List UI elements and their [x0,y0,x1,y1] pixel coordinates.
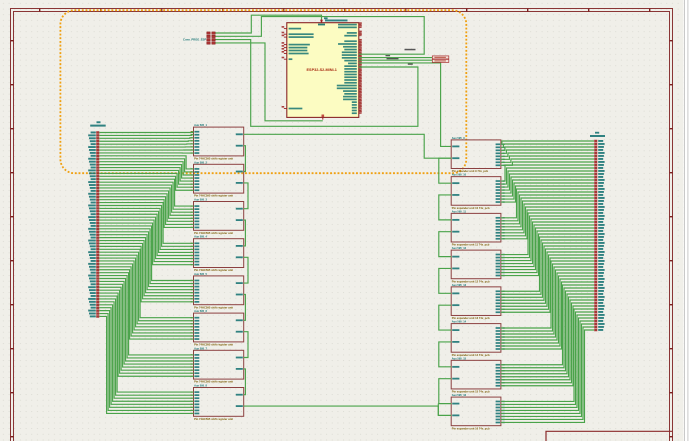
U10 pin names [452,143,504,166]
wire U10 output 5 to J3 pin 5 [501,153,594,156]
U2 pin names [191,131,243,154]
shift register U16 body [451,360,501,389]
wire U12 output 6 to J3 pin 22 [501,204,594,233]
wire U10 serial out to U11 serial in [439,158,451,183]
wire J2 pin 49 to U8 input 1 [99,273,193,355]
wire U13 output 3 to J3 pin 27 [501,219,594,261]
wire U16 output 4 to J3 pin 52 [501,294,594,374]
wire U14 output 2 to J3 pin 34 [501,240,594,294]
connector J1 programming header 2x4 [207,32,215,44]
wire U16 output 1 to J3 pin 49 [501,285,594,365]
wire U17 output 6 to J3 pin 62 [501,324,594,416]
wire J1 pin1 to U1 3V3 top pin [216,15,322,33]
connector J3 pin rows [594,140,604,332]
U4 pin names [191,205,243,228]
U13 pin names [452,254,504,277]
wire J1 pin3 to U1 EN net [216,40,418,127]
wire J1 pin2 to U1 TXD net [216,17,425,55]
U8 pin names [191,354,243,377]
U1 left side pins EN IO0 IO45 IO46 3V3 RXD [282,26,314,109]
wire J2 pin 10 to U3 input 2 [99,159,193,172]
wire U15 output 1 to J3 pin 41 [501,261,594,328]
wire U17 output 1 to J3 pin 57 [501,309,594,401]
svg-text:Aux 595_16: Aux 595_16 [452,393,467,397]
shift register U3 body [194,164,244,193]
shift register U5 body [194,239,244,268]
wire U12 output 3 to J3 pin 19 [501,195,594,224]
wire U12 output 4 to J3 pin 20 [501,198,594,227]
net name text XTAL_N [405,49,416,51]
wire U13 output 5 to J3 pin 29 [501,225,594,267]
wire U5 serial out to U6 serial in [244,257,248,283]
svg-text:Pin 74HC595 shift register uni: Pin 74HC595 shift register unit [194,157,233,161]
wire U11 output 2 to J3 pin 10 [501,168,594,184]
wire J2 pin 13 to U3 input 5 [99,168,193,182]
wire J2 pin 60 to U9 input 4 [99,305,193,401]
wire J2 pin 12 to U3 input 4 [99,165,193,178]
wire U12 output 2 to J3 pin 18 [501,192,594,221]
U11 pin names [452,180,504,203]
wire J2 pin 4 to U2 input 4 [99,140,193,142]
wire U6 serial out to U7 serial in [244,295,246,321]
wire U15 output 8 to J3 pin 48 [501,282,594,349]
wire J2 pin 22 to U4 input 6 [99,194,193,222]
U1 reference designator text [324,17,328,19]
wire U13 output 2 to J3 pin 26 [501,216,594,258]
wire U17 output 4 to J3 pin 60 [501,318,594,410]
svg-text:Pin expander unit 11 74x_pcb: Pin expander unit 11 74x_pcb [452,243,490,247]
wire U14 output 7 to J3 pin 39 [501,255,594,309]
wire U12 output 8 to J3 pin 24 [501,210,594,239]
wire J2 pin 35 to U6 input 3 [99,232,193,287]
net name text TXD [386,55,391,56]
wire J1 pin4 to U1 GND bottom pin [216,43,323,121]
wire J2 pin 29 to U5 input 5 [99,214,193,255]
wire U15 output 7 to J3 pin 47 [501,279,594,346]
svg-text:Pin expander unit 15 74x_pcb: Pin expander unit 15 74x_pcb [452,390,490,394]
wire U2 latch to U10 across page [244,134,452,158]
U12 pin names [452,217,504,240]
wire J2 pin 24 to U4 input 8 [99,200,193,228]
wire J2 pin 2 to U2 input 2 [99,134,193,137]
wire U14 output 1 to J3 pin 33 [501,237,594,291]
svg-text:Aux 595_5: Aux 595_5 [194,272,207,276]
wire U1 RXD0 to label flag [359,59,433,61]
wire J2 pin 23 to U4 input 7 [99,197,193,225]
wire J2 pin 50 to U8 input 2 [99,276,193,358]
wire J2 pin 46 to U7 input 6 [99,264,193,333]
shift register U9 body [194,388,244,417]
wire J2 pin 20 to U4 input 4 [99,188,193,215]
wire U17 output 7 to J3 pin 63 [501,327,594,419]
wire J2 pin 33 to U6 input 1 [99,226,193,281]
svg-text:Aux 595_4: Aux 595_4 [194,235,207,239]
wire U12 output 1 to J3 pin 17 [501,189,594,218]
wire J2 pin 31 to U5 input 7 [99,220,193,262]
wire U10 output 7 to J3 pin 7 [501,159,594,162]
wire U14 serial out to U15 serial in [439,305,451,330]
wire U12 serial out to U13 serial in [439,232,451,257]
shift register U17 body [451,397,501,426]
wire J2 pin 18 to U4 input 2 [99,182,193,209]
wire J2 pin 37 to U6 input 5 [99,238,193,293]
wire J2 pin 5 to U2 input 5 [99,143,193,145]
svg-text:Aux 595_15: Aux 595_15 [452,356,467,360]
wire J2 pin 1 to U2 input 1 [99,131,193,134]
U7 pin names [191,317,243,340]
wire U15 output 3 to J3 pin 43 [501,267,594,334]
U1 top pin 3V3 [318,19,325,25]
connector J2 reference text [97,121,101,123]
wire J2 pin 51 to U8 input 3 [99,279,193,362]
svg-text:Aux 595_14: Aux 595_14 [452,320,467,324]
wire U16 output 8 to J3 pin 56 [501,306,594,386]
wire J2 pin 16 to U3 input 8 [99,176,193,190]
wire U11 output 7 to J3 pin 15 [501,183,594,199]
svg-text:Aux 595_6: Aux 595_6 [194,309,207,313]
U1 right side GPIO pins [337,22,362,114]
wire U11 output 6 to J3 pin 14 [501,180,594,196]
wire U10 output 1 to J3 pin 1 [501,141,594,144]
wire U15 output 5 to J3 pin 45 [501,273,594,340]
wire U13 output 1 to J3 pin 25 [501,213,594,255]
wire U16 output 5 to J3 pin 53 [501,297,594,377]
wire U8 serial out to U9 serial in [244,369,246,395]
svg-text:Aux 595_8: Aux 595_8 [194,384,207,388]
wire J2 pin 39 to U6 input 7 [99,243,193,298]
wire U11 output 3 to J3 pin 11 [501,171,594,187]
U6 pin names [191,280,243,303]
shift register U12 body [451,213,501,242]
wire J2 pin 38 to U6 input 6 [99,241,193,296]
svg-text:Pin 74HC595 shift register uni: Pin 74HC595 shift register unit [194,343,233,347]
wire U13 output 6 to J3 pin 30 [501,228,594,270]
wire junction vertical at U17 [437,404,439,416]
wire J2 pin 34 to U6 input 2 [99,229,193,284]
connector J2 pin rows [88,131,99,317]
wire J2 pin 9 to U3 input 1 [99,156,193,169]
wire U16 serial out to U17 serial in [439,379,451,404]
wire stub U17 serial in [438,403,451,405]
wire J2 pin 27 to U5 input 3 [99,208,193,249]
wire J2 pin 48 to U7 input 8 [99,270,193,339]
wire U13 output 7 to J3 pin 31 [501,231,594,273]
wire U16 output 7 to J3 pin 55 [501,303,594,383]
wire J2 pin 15 to U3 input 7 [99,173,193,187]
wire U17 output 3 to J3 pin 59 [501,315,594,407]
wire J2 pin 55 to U8 input 7 [99,290,193,373]
wire J2 pin 53 to U8 input 5 [99,284,193,367]
wire J2 pin 58 to U9 input 2 [99,299,193,395]
U16 pin names [452,364,504,387]
svg-text:Pin expander unit 14 74x_pcb: Pin expander unit 14 74x_pcb [452,353,490,357]
svg-text:Pin expander unit 16 74x_pcb: Pin expander unit 16 74x_pcb [452,426,490,430]
wire J2 pin 17 to U4 input 1 [99,179,193,206]
shift register U14 body [451,287,501,316]
shift register U8 body [194,350,244,379]
wire J2 pin 8 to U2 input 8 [99,152,193,154]
svg-text:Aux 595_2: Aux 595_2 [194,160,207,164]
wire U12 output 7 to J3 pin 23 [501,207,594,236]
wire U14 output 8 to J3 pin 40 [501,258,594,312]
svg-text:Aux 595_11: Aux 595_11 [452,209,467,213]
wire U16 output 2 to J3 pin 50 [501,288,594,368]
wire J2 pin 52 to U8 input 4 [99,281,193,364]
wire J2 pin 26 to U5 input 2 [99,206,193,247]
wire U3 serial out to U4 serial in [244,183,248,209]
wire U14 output 4 to J3 pin 36 [501,246,594,300]
shift register U6 body [194,276,244,305]
wire J2 pin 3 to U2 input 3 [99,137,193,140]
wire J2 pin 64 to U9 input 8 [99,316,193,413]
wire J2 pin 21 to U4 input 5 [99,191,193,218]
wire J2 pin 61 to U9 input 5 [99,308,193,405]
svg-text:Pin expander unit 13 74x_pcb: Pin expander unit 13 74x_pcb [452,316,490,320]
U15 pin names [452,327,504,350]
svg-text:Aux 595_10: Aux 595_10 [452,173,467,177]
wire U11 serial out to U12 serial in [439,195,451,220]
window edge white strip [684,0,690,441]
wire J2 pin 63 to U9 input 7 [99,314,193,411]
wire J2 pin 47 to U7 input 7 [99,267,193,336]
wire U16 output 3 to J3 pin 51 [501,291,594,371]
svg-text:ESP32-S2-MINI-1: ESP32-S2-MINI-1 [307,68,337,72]
U5 pin names [191,242,243,265]
wire U13 output 8 to J3 pin 32 [501,234,594,276]
connector J3 reference text [595,132,599,134]
shift register U13 body [451,250,501,279]
svg-text:Aux 595_13: Aux 595_13 [452,283,467,287]
shift register U2 body [194,127,244,156]
wire U16 output 6 to J3 pin 54 [501,300,594,380]
wire U13 serial out to U14 serial in [439,268,451,293]
wire U14 output 5 to J3 pin 37 [501,249,594,303]
wire U10 output 2 to J3 pin 2 [501,144,594,147]
net label flag TXD [432,56,449,59]
svg-text:Pin expander unit 10 74x_pcb: Pin expander unit 10 74x_pcb [452,206,490,210]
U17 pin names [452,401,504,424]
wire J2 pin 42 to U7 input 2 [99,252,193,321]
wire U15 output 6 to J3 pin 46 [501,276,594,343]
wire U10 output 8 to J3 pin 8 [501,162,594,165]
shift register U7 body [194,313,244,342]
svg-text:Pin 74HC595 shift register uni: Pin 74HC595 shift register unit [194,417,233,421]
wire J2 pin 54 to U8 input 6 [99,287,193,370]
wire J2 pin 25 to U5 input 1 [99,203,193,244]
svg-text:Pin expander unit 12 74x_pcb: Pin expander unit 12 74x_pcb [452,279,490,283]
wire U10 output 4 to J3 pin 4 [501,150,594,153]
wire U17 output 2 to J3 pin 58 [501,312,594,404]
wire J2 pin 40 to U6 input 8 [99,246,193,301]
wire J2 pin 14 to U3 input 6 [99,170,193,184]
svg-text:Aux 595_1: Aux 595_1 [194,123,207,127]
wire U9 serial out to U17 serial in bottom run [244,406,452,415]
wire U11 output 8 to J3 pin 16 [501,186,594,202]
wire U11 output 4 to J3 pin 12 [501,174,594,190]
svg-text:Pin 74HC595 shift register uni: Pin 74HC595 shift register unit [194,231,233,235]
wire J2 pin 57 to U9 input 1 [99,296,193,392]
wire U1 data to U10 serial in [359,63,451,146]
wire J2 pin 56 to U8 input 8 [99,293,193,376]
svg-text:Aux 595_3: Aux 595_3 [194,198,207,202]
wire U14 output 3 to J3 pin 35 [501,243,594,297]
svg-text:Conn_PROG_ESP: Conn_PROG_ESP [183,38,206,42]
wire U12 output 5 to J3 pin 21 [501,201,594,230]
U14 pin names [452,290,504,313]
shift register U11 body [451,177,501,206]
wire U10 output 3 to J3 pin 3 [501,147,594,150]
wire U4 serial out to U5 serial in [244,220,246,246]
shift register U10 body [451,140,501,169]
title block frame [546,431,673,441]
wire J2 pin 32 to U5 input 8 [99,223,193,265]
wire J2 pin 45 to U7 input 5 [99,261,193,330]
wire J2 pin 7 to U2 input 7 [99,149,193,151]
net label flag RXD [432,59,449,62]
U3 pin names [191,168,243,191]
wire U15 serial out to U16 serial in [439,342,451,367]
wire U10 output 6 to J3 pin 6 [501,156,594,159]
wire U14 output 6 to J3 pin 38 [501,252,594,306]
svg-text:Pin 74HC595 shift register uni: Pin 74HC595 shift register unit [194,268,233,272]
wire J2 pin 36 to U6 input 4 [99,235,193,290]
wire J2 pin 62 to U9 input 6 [99,311,193,408]
net name text GND [408,64,413,65]
orange dotted selection rectangle [60,10,466,173]
svg-text:Pin 74HC595 shift register uni: Pin 74HC595 shift register unit [194,194,233,198]
wire J2 pin 6 to U2 input 6 [99,146,193,148]
svg-text:Aux 595_12: Aux 595_12 [452,246,467,250]
net name text ESP_RXD [387,58,399,59]
wire J2 pin 41 to U7 input 1 [99,249,193,317]
wire J2 pin 19 to U4 input 3 [99,185,193,212]
svg-text:Aux 595_7: Aux 595_7 [194,346,207,350]
wire U15 output 2 to J3 pin 42 [501,264,594,331]
shift register U15 body [451,324,501,353]
wire J2 pin 28 to U5 input 4 [99,211,193,252]
wire U17 output 5 to J3 pin 61 [501,321,594,413]
wire U2 serial out to U3 serial in [244,146,246,172]
wire U11 output 5 to J3 pin 13 [501,177,594,193]
wire J2 pin 43 to U7 input 3 [99,255,193,324]
shift register U4 body [194,202,244,231]
wire U7 serial out to U8 serial in [244,332,248,358]
wire J2 pin 11 to U3 input 3 [99,162,193,175]
U1 bottom pin GND [322,115,325,120]
svg-text:Aux 595_9: Aux 595_9 [452,136,465,140]
wire U17 output 8 to J3 pin 64 [501,330,594,422]
U9 pin names [191,391,243,414]
svg-text:Pin expander unit 9 74x_pcb: Pin expander unit 9 74x_pcb [452,169,489,173]
wire U1 TXD0 to label flag [359,57,433,59]
svg-text:Pin 74HC595 shift register uni: Pin 74HC595 shift register unit [194,305,233,309]
wire J2 pin 44 to U7 input 4 [99,258,193,327]
wire J2 pin 30 to U5 input 6 [99,217,193,258]
wire U13 output 4 to J3 pin 28 [501,222,594,264]
wire U15 output 4 to J3 pin 44 [501,270,594,337]
svg-text:Pin 74HC595 shift register uni: Pin 74HC595 shift register unit [194,380,233,384]
wire J2 pin 59 to U9 input 3 [99,302,193,398]
wire U11 output 1 to J3 pin 9 [501,165,594,181]
module U1 ESP32-S2-MINI-1 body [287,23,359,118]
